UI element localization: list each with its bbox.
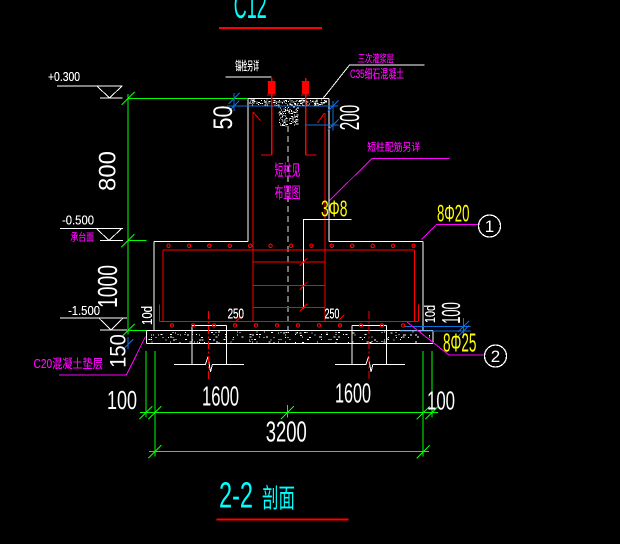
tick near left 250 label	[236, 316, 241, 321]
3phi8 tick on rung3	[300, 304, 308, 312]
level line -1.500 (green)	[128, 329, 146, 331]
pocket bottom extension (blue)	[306, 124, 339, 126]
pile 2 outline	[352, 325, 387, 327]
anchor label underline (white)	[226, 76, 272, 78]
svg-text:150: 150	[106, 334, 131, 368]
ladder rung 3 (3d8)	[253, 307, 325, 309]
footing cage right vertical	[414, 250, 416, 322]
row1 tick x=145.8	[139, 406, 152, 419]
svg-text:三次灌浆层: 三次灌浆层	[358, 52, 394, 65]
extension line lean right	[431, 351, 433, 418]
grout leader (white)	[323, 65, 425, 99]
elevation marker -0.500	[60, 213, 123, 241]
bottom title underline red	[217, 519, 349, 521]
svg-text:1000: 1000	[92, 265, 123, 308]
elevation marker -1.500	[60, 303, 127, 330]
footing left edge	[153, 241, 155, 330]
svg-text:短柱见: 短柱见	[275, 162, 301, 180]
tick at -0.500	[122, 234, 135, 247]
ladder rung 1 (3d8)	[253, 261, 325, 263]
extension line centerline	[286, 405, 288, 418]
footing bottom bar (red)	[160, 321, 419, 323]
svg-text:-0.500: -0.500	[62, 213, 94, 228]
svg-text:3200: 3200	[266, 417, 307, 449]
column outline left edge	[247, 99, 249, 242]
ladder rung 2 (3d8)	[253, 285, 325, 287]
tick 50 top	[228, 93, 239, 104]
row1 tick x=287.4	[281, 406, 294, 419]
C20 leader (magenta)	[59, 337, 146, 375]
svg-text:50: 50	[208, 106, 238, 130]
svg-text:800: 800	[94, 151, 121, 191]
extension line footing right	[422, 351, 424, 457]
8phi20 leader (magenta)	[422, 225, 479, 240]
svg-text:100: 100	[436, 302, 466, 324]
pile 1 centerline (red dash-dot)	[208, 311, 210, 380]
bottom dimension row 2 (green)	[149, 451, 429, 453]
svg-text:8Φ20: 8Φ20	[437, 201, 470, 228]
dim 200 vertical (blue)	[332, 101, 334, 131]
svg-text:8Φ25: 8Φ25	[443, 327, 477, 357]
pile 1 outline	[192, 325, 227, 327]
grout layer speckle band	[249, 100, 327, 106]
svg-text:C20混凝土垫层: C20混凝土垫层	[34, 356, 104, 371]
svg-text:200: 200	[334, 105, 365, 130]
grout pocket speckle	[279, 107, 300, 127]
column outline right edge	[328, 99, 330, 242]
row1 tick x=423.1	[417, 406, 430, 419]
tick right cover 1	[458, 321, 469, 332]
tick near right 250 label	[339, 315, 344, 320]
pile 2 break line	[335, 357, 405, 372]
footing top edge	[154, 240, 248, 242]
pile 1 break line	[174, 357, 244, 372]
bottom bar right 10d hook	[418, 305, 420, 322]
level line -0.500 (green)	[128, 240, 147, 242]
column rebar right bar (red)	[324, 113, 326, 322]
svg-text:锚栓另详: 锚栓另详	[235, 58, 259, 73]
right cover dim vertical (blue)	[462, 318, 464, 339]
3phi8 leader line (white)	[304, 219, 352, 308]
svg-text:2: 2	[491, 347, 500, 366]
pile 2 centerline (red dash-dot)	[368, 311, 370, 380]
3phi8 tick on rung2	[300, 282, 308, 290]
extension line footing left	[154, 351, 156, 457]
right cover dim extension 1 (blue)	[405, 325, 471, 327]
row1 tick x=154.9	[148, 406, 161, 419]
bottom bar left 10d hook	[159, 305, 161, 322]
left dimension line (green vertical)	[127, 94, 129, 335]
column top line	[248, 98, 329, 100]
left bar top 45 tick	[253, 113, 260, 121]
tick at +0.300	[122, 92, 135, 105]
anchor bolt 2 (red)	[301, 78, 316, 155]
elevation marker +0.300	[48, 69, 123, 98]
svg-text:布置图: 布置图	[275, 184, 301, 202]
dim 150 blue vertical (left)	[127, 337, 129, 349]
lean concrete speckle	[149, 332, 431, 344]
grout bottom blue line (50/200 extension)	[227, 105, 338, 107]
svg-text:3Φ8: 3Φ8	[321, 195, 348, 221]
footing right edge	[422, 241, 424, 330]
svg-text:承台面: 承台面	[70, 230, 94, 243]
tick right cover 2	[458, 325, 469, 336]
svg-text:+0.300: +0.300	[48, 69, 80, 84]
svg-text:C12: C12	[234, 0, 267, 26]
anchor bolt 1 (red)	[261, 78, 276, 155]
dim 50 vertical (blue)	[233, 93, 235, 111]
column/footing centerline (dashed)	[287, 126, 289, 331]
row2 tick left	[148, 445, 161, 458]
svg-text:1600: 1600	[335, 377, 371, 408]
bar mark circle 2	[485, 345, 507, 367]
svg-text:1600: 1600	[202, 380, 239, 411]
svg-text:C35细石混凝土: C35细石混凝土	[350, 66, 404, 81]
footing top bar (red)	[163, 249, 415, 251]
svg-text:250: 250	[325, 305, 340, 322]
tick 150 bottom (blue)	[123, 339, 134, 350]
bottom dimension row 1 (green)	[140, 412, 438, 414]
column rebar left bar (red)	[252, 112, 254, 322]
短柱配筋另详 leader (magenta)	[330, 159, 450, 201]
bar mark circle 1	[479, 215, 501, 237]
right cover dim extension 2 (blue)	[400, 330, 471, 332]
svg-text:250: 250	[228, 305, 244, 322]
row2 tick right	[417, 445, 430, 458]
svg-text:100: 100	[427, 385, 455, 415]
tick 200 bottom	[328, 119, 339, 130]
extension line lean left	[145, 351, 147, 418]
row1 tick x=431.8	[425, 406, 438, 419]
footing cage left vertical	[162, 250, 164, 322]
tick 50 bottom	[228, 101, 239, 112]
title underline red (top)	[219, 27, 322, 29]
svg-text:1: 1	[485, 217, 494, 236]
tick at -1.500	[122, 324, 135, 337]
bottom distribution bar dots (red)	[170, 324, 404, 327]
svg-text:短柱配筋另详: 短柱配筋另详	[367, 141, 420, 154]
lean concrete layer outline	[147, 330, 434, 332]
3phi8 tick on rung1	[300, 258, 308, 266]
right bar top 45 tick	[318, 113, 325, 123]
svg-text:10d: 10d	[140, 306, 156, 325]
svg-text:100: 100	[107, 385, 137, 415]
top distribution bar dots (red)	[167, 244, 415, 247]
level line +0.300 (green)	[128, 97, 248, 99]
8phi25 leader (magenta)	[407, 322, 484, 355]
tick 200 top	[328, 101, 339, 112]
